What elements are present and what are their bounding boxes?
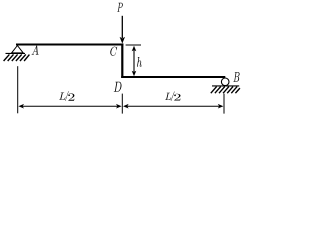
ground line at B	[212, 85, 239, 87]
label D	[114, 82, 122, 92]
ground line at A	[6, 52, 26, 54]
beam CD (vertical member at C-D step)	[121, 44, 123, 79]
dimension arrow h (double headed vertical)	[132, 46, 137, 77]
extension tick for h dimension	[126, 44, 141, 46]
dimension line right span D to B	[123, 104, 223, 109]
label A	[32, 45, 39, 54]
load P arrow	[120, 16, 125, 44]
beam AC (top horizontal member)	[16, 44, 123, 46]
label L/2 right	[165, 91, 180, 101]
beam DB (bottom horizontal member)	[121, 76, 225, 78]
hatching at B	[211, 87, 240, 94]
dimension line left span A to D	[18, 104, 121, 109]
hatching at A	[4, 54, 30, 61]
pin support triangle at A	[12, 46, 24, 53]
label L/2 left	[59, 91, 74, 101]
dimension extension line below B	[223, 94, 225, 114]
dimension extension line below D	[121, 94, 123, 114]
roller circle at B	[221, 78, 229, 86]
label C	[110, 47, 117, 56]
dimension extension line below A	[17, 66, 19, 113]
label P	[117, 3, 123, 12]
label h	[137, 57, 142, 67]
label B	[233, 72, 239, 82]
